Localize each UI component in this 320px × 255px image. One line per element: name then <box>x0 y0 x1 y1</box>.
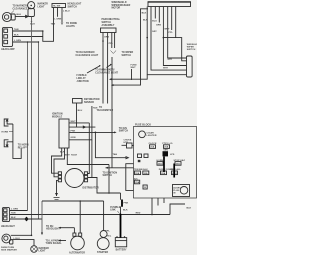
bold trace 2 <box>173 164 175 178</box>
wiper wire 3 stub <box>152 7 157 23</box>
svg-text:CLEARANCE LIGHT: CLEARANCE LIGHT <box>76 54 99 57</box>
svg-text:25A: 25A <box>135 181 139 184</box>
wire bus C vertical x38.5 <box>38 41 39 219</box>
svg-text:ALTERNATOR: ALTERNATOR <box>69 251 85 254</box>
choke heater box <box>122 139 134 148</box>
svg-text:L BLU: L BLU <box>14 238 21 240</box>
wire alternator right terminal <box>79 201 81 233</box>
wire lamp down + BLK label <box>30 21 35 26</box>
svg-text:PNK: PNK <box>124 202 129 204</box>
svg-text:PARK/TURN: PARK/TURN <box>1 246 15 249</box>
svg-text:20A: 20A <box>144 172 148 175</box>
svg-text:SIDE MARKER: SIDE MARKER <box>1 248 17 251</box>
svg-text:SENSOR: SENSOR <box>84 102 94 104</box>
svg-text:PNK: PNK <box>71 131 76 133</box>
wire down to LH park turn <box>41 201 43 235</box>
label windshield wiper switch <box>187 44 198 51</box>
svg-text:TO WIPER: TO WIPER <box>122 52 134 54</box>
fuse AC <box>134 177 140 184</box>
svg-text:YEL: YEL <box>107 236 112 238</box>
wire L GRN bottom <box>10 209 28 211</box>
wire bottom right to BLK stub <box>170 204 192 215</box>
svg-text:TO MARKER/: TO MARKER/ <box>13 5 28 8</box>
wire ORN from P/N switch <box>102 33 109 104</box>
fuse pair left column <box>138 154 149 162</box>
wire BLK connector to marker lamp <box>15 14 29 19</box>
svg-text:GRY: GRY <box>168 59 173 61</box>
svg-text:L GRN: L GRN <box>14 40 21 42</box>
module bottom wire 1 <box>52 148 66 173</box>
wire stub below Fusd Wht label <box>131 69 133 80</box>
wire starter solenoid up <box>103 201 112 238</box>
svg-text:TACH: TACH <box>71 154 77 157</box>
svg-text:HEADLIGHT: HEADLIGHT <box>46 228 60 231</box>
svg-text:BLK: BLK <box>123 210 128 212</box>
svg-text:BLK: BLK <box>11 217 16 219</box>
wiper wire 2 <box>151 7 187 71</box>
label to RH headlight <box>46 226 74 231</box>
svg-text:ASSEMBLY: ASSEMBLY <box>102 24 115 27</box>
windshield wiper washer motor label <box>112 2 131 10</box>
label RED <box>136 213 141 215</box>
svg-text:HEADLAMP: HEADLAMP <box>1 48 15 51</box>
svg-text:TO IGN: TO IGN <box>119 128 127 130</box>
svg-text:WINDSHIELD: WINDSHIELD <box>112 2 127 4</box>
svg-text:20A: 20A <box>176 163 180 166</box>
svg-text:20A: 20A <box>161 172 165 175</box>
svg-text:TAN: TAN <box>51 22 56 25</box>
wire BLK y36.5 <box>13 35 43 37</box>
wire distributor to starter circuit <box>88 178 121 194</box>
ignition module U1 <box>52 114 69 148</box>
connector J1 marker/clearance light connector <box>2 12 15 21</box>
wire left of bar to washer pump <box>111 9 148 86</box>
wire PNK down to ignition switch feed staircase <box>95 57 133 169</box>
svg-text:LIGHTER: LIGHTER <box>147 135 157 137</box>
svg-text:PPL: PPL <box>169 32 174 34</box>
svg-text:BLK: BLK <box>142 13 147 15</box>
svg-text:HEADLIGHT: HEADLIGHT <box>68 3 82 6</box>
svg-text:MARKER: MARKER <box>38 3 49 6</box>
bold trace 1 <box>163 157 165 173</box>
wire harness labels <box>163 59 173 70</box>
wire tach lead down <box>108 165 110 194</box>
starter solenoid <box>97 231 109 254</box>
svg-text:MARKER: MARKER <box>39 247 50 250</box>
wire bypass loop into fuse block <box>126 164 134 191</box>
wire park/turn 2 <box>11 238 34 246</box>
label TACH <box>71 154 77 157</box>
svg-text:HORN: HORN <box>2 131 9 133</box>
wiper wire 6 <box>168 7 187 59</box>
svg-text:DISTRIBUTOR: DISTRIBUTOR <box>83 188 99 190</box>
wire BLK bottom <box>10 217 42 219</box>
svg-text:BLK: BLK <box>14 35 19 37</box>
module pin wire GRN <box>71 137 76 139</box>
svg-text:TO DOME: TO DOME <box>66 23 77 25</box>
label fusible link with arrow <box>77 65 101 83</box>
svg-text:SWITCH: SWITCH <box>187 49 196 51</box>
fuse small lower <box>143 185 147 189</box>
wire TAN bottom long <box>10 212 170 215</box>
label to RH marker clearance light upper <box>76 51 99 57</box>
wire park/turn 1 <box>11 235 33 237</box>
svg-text:PARK/NEUTRAL: PARK/NEUTRAL <box>102 18 121 21</box>
svg-text:PPL: PPL <box>109 43 114 45</box>
headlamp connector P2 <box>1 27 15 51</box>
svg-text:TO RH: TO RH <box>46 226 54 228</box>
svg-text:GRN: GRN <box>71 137 76 139</box>
wire across engine bay y201 <box>42 200 104 202</box>
svg-text:TO IGNITION: TO IGNITION <box>103 172 118 174</box>
svg-text:20A: 20A <box>135 172 139 175</box>
wire to dome lights from switch pin 3 <box>61 8 77 28</box>
svg-text:WIPER/WASHER: WIPER/WASHER <box>112 4 131 7</box>
wiper wire 4 stub <box>156 7 161 27</box>
svg-text:MODULE: MODULE <box>52 116 63 118</box>
svg-text:CLEARANCE LIGHT: CLEARANCE LIGHT <box>95 71 118 74</box>
inline connector diamond on BLK <box>24 217 28 222</box>
svg-text:L BLU: L BLU <box>63 10 70 12</box>
label to ignition switch <box>103 172 118 177</box>
cigar lighter <box>139 131 157 138</box>
svg-text:LPS: LPS <box>170 154 175 156</box>
paper background texture <box>0 0 197 255</box>
svg-text:BLK: BLK <box>187 208 192 210</box>
headlight switch S1 <box>52 3 82 9</box>
battery cable bold <box>120 193 129 238</box>
svg-text:ACSRY: ACSRY <box>173 186 181 189</box>
svg-text:LIGHT: LIGHT <box>38 6 46 8</box>
fuse DOME <box>159 169 174 175</box>
label to ignition switch feed <box>119 128 129 133</box>
wire PPL from P/N switch <box>108 33 114 104</box>
label to LH park turn <box>46 239 67 245</box>
wire junction fuse block feed <box>151 214 153 216</box>
svg-text:HTR: HTR <box>124 142 129 144</box>
svg-text:DETONATION: DETONATION <box>84 98 100 101</box>
svg-text:BLK: BLK <box>143 20 148 22</box>
wire TAN y31 <box>13 28 44 32</box>
horn wire vertical <box>13 124 21 158</box>
detonation sensor <box>73 98 100 104</box>
park/turn connector <box>1 234 17 251</box>
svg-text:WHT: WHT <box>71 121 77 123</box>
wiper wire 8 jog <box>163 7 186 61</box>
svg-text:SWITCH: SWITCH <box>119 131 129 133</box>
svg-text:GRY: GRY <box>152 31 157 33</box>
svg-text:WHT: WHT <box>163 68 169 70</box>
label fusible link bottom <box>110 207 121 214</box>
wiper wire 7 stub <box>169 7 174 35</box>
fuse CLOCK <box>149 143 157 149</box>
alternator <box>69 233 85 254</box>
fuse block box <box>134 123 197 198</box>
svg-text:ORN: ORN <box>104 36 109 38</box>
wiper harness connector right <box>187 56 193 77</box>
horn symbol upper <box>4 119 13 127</box>
svg-text:HEADLIGHT: HEADLIGHT <box>1 225 15 228</box>
fuse GEN bold <box>163 149 175 156</box>
module pin wire WHT <box>69 121 89 123</box>
svg-text:20A: 20A <box>164 146 168 149</box>
fuse PWR ALL <box>171 168 182 175</box>
svg-text:PPL: PPL <box>105 230 110 232</box>
battery <box>115 236 127 251</box>
wire TAN from switch pin 1 <box>43 8 56 42</box>
module bottom wire 2 <box>54 148 70 177</box>
label to horn relay <box>18 145 29 150</box>
fuse block bottom stub 1 <box>151 198 153 215</box>
svg-text:SWITCH: SWITCH <box>102 22 112 24</box>
fuse HORN <box>157 160 164 166</box>
wire L GRN stub from switch pin 2 <box>54 8 61 21</box>
svg-text:CIGAR: CIGAR <box>147 131 155 134</box>
distributor ground wire <box>57 180 59 196</box>
label To Marker/Clearance light <box>11 5 32 14</box>
svg-text:TAN: TAN <box>93 107 98 110</box>
distributor left pins <box>58 172 61 182</box>
svg-text:BATTERY: BATTERY <box>116 249 127 252</box>
svg-text:LIGHT: LIGHT <box>39 251 47 253</box>
fuse block bottom stub 3 <box>163 198 165 203</box>
headlight connector bottom <box>1 207 15 228</box>
svg-text:L GRN: L GRN <box>11 209 18 211</box>
accessory plug-in relay <box>173 185 190 197</box>
svg-text:TO: TO <box>99 107 102 109</box>
svg-text:L GRN: L GRN <box>54 18 61 20</box>
svg-text:GEN: GEN <box>163 149 168 151</box>
svg-text:BLK: BLK <box>17 14 22 16</box>
svg-text:BLU: BLU <box>152 20 157 22</box>
svg-text:FUSIBLE: FUSIBLE <box>110 207 121 209</box>
label to RH marker lower with arrow <box>95 64 118 75</box>
wire bus B vertical x31.5 <box>31 17 33 236</box>
wiper motor connector bar <box>148 2 191 7</box>
svg-text:JUNCTION: JUNCTION <box>77 81 89 83</box>
fuse CTSY <box>162 143 173 149</box>
module pin wire with inline connector diamond <box>69 125 95 128</box>
svg-text:SWITCH: SWITCH <box>122 55 132 57</box>
park/neutral switch S2 <box>101 18 121 32</box>
module bottom wire 3 <box>67 148 109 165</box>
svg-text:20A: 20A <box>150 146 154 149</box>
label Fusd Wht <box>131 65 138 70</box>
svg-text:20A: 20A <box>158 163 162 166</box>
svg-text:LINK: LINK <box>110 210 116 212</box>
wire alternator left terminal <box>73 228 75 233</box>
distributor <box>65 169 99 190</box>
wire module right down to distributor pin <box>87 123 89 174</box>
svg-text:STARTER: STARTER <box>97 251 108 254</box>
svg-text:TURN SIGNAL: TURN SIGNAL <box>46 242 63 245</box>
svg-text:GRN: GRN <box>156 24 161 26</box>
fuse block bottom stub 2 <box>157 198 159 206</box>
wire bus A vertical x27.5 <box>27 41 29 210</box>
module pin wire PNK junction <box>69 131 117 134</box>
fuse GAU <box>143 168 149 175</box>
lamp L1 marker light <box>28 2 49 17</box>
wiper wire 5 <box>163 7 187 66</box>
fuse STOP/HAZ <box>174 159 186 166</box>
svg-text:WHT: WHT <box>131 67 137 69</box>
wire stubs to wiper switch <box>111 33 134 57</box>
label horn <box>2 131 13 133</box>
svg-text:TACHOMETER: TACHOMETER <box>97 109 114 112</box>
svg-text:IGNITION: IGNITION <box>52 114 63 116</box>
wiper wire 1 <box>143 7 187 75</box>
svg-text:RED: RED <box>136 213 141 215</box>
svg-text:LIGHTS: LIGHTS <box>66 26 75 28</box>
svg-text:TO HORN: TO HORN <box>18 145 29 147</box>
wire L GRN y42 <box>13 40 39 42</box>
ground symbol <box>54 193 60 201</box>
module pin wire TAN vertical <box>69 106 98 178</box>
distributor right pins <box>84 172 87 182</box>
svg-text:SWITCH: SWITCH <box>103 175 113 177</box>
wire BLU detonation down <box>77 103 83 127</box>
svg-text:SWITCH: SWITCH <box>68 6 78 8</box>
marker lamp bottom <box>31 246 49 253</box>
horn symbol lower <box>4 140 13 148</box>
svg-text:MOTOR: MOTOR <box>112 8 121 10</box>
svg-text:TAN: TAN <box>113 153 118 156</box>
label to tachometer <box>97 107 114 112</box>
svg-text:TAN: TAN <box>14 28 19 31</box>
svg-text:BLU: BLU <box>78 110 83 112</box>
fuse TRN BK <box>134 169 143 175</box>
svg-text:LINK AT: LINK AT <box>77 77 87 80</box>
svg-text:WDO: WDO <box>172 173 178 175</box>
svg-text:TO RH MARKER/: TO RH MARKER/ <box>76 51 95 54</box>
wire washer pump 2 <box>109 75 147 81</box>
svg-text:FUSIBLE: FUSIBLE <box>77 75 88 77</box>
svg-text:FUSE BLOCK: FUSE BLOCK <box>135 123 151 126</box>
svg-text:TAN: TAN <box>11 212 16 215</box>
svg-text:TO LH PARK/: TO LH PARK/ <box>46 239 61 242</box>
svg-text:HL SW: HL SW <box>53 6 61 8</box>
